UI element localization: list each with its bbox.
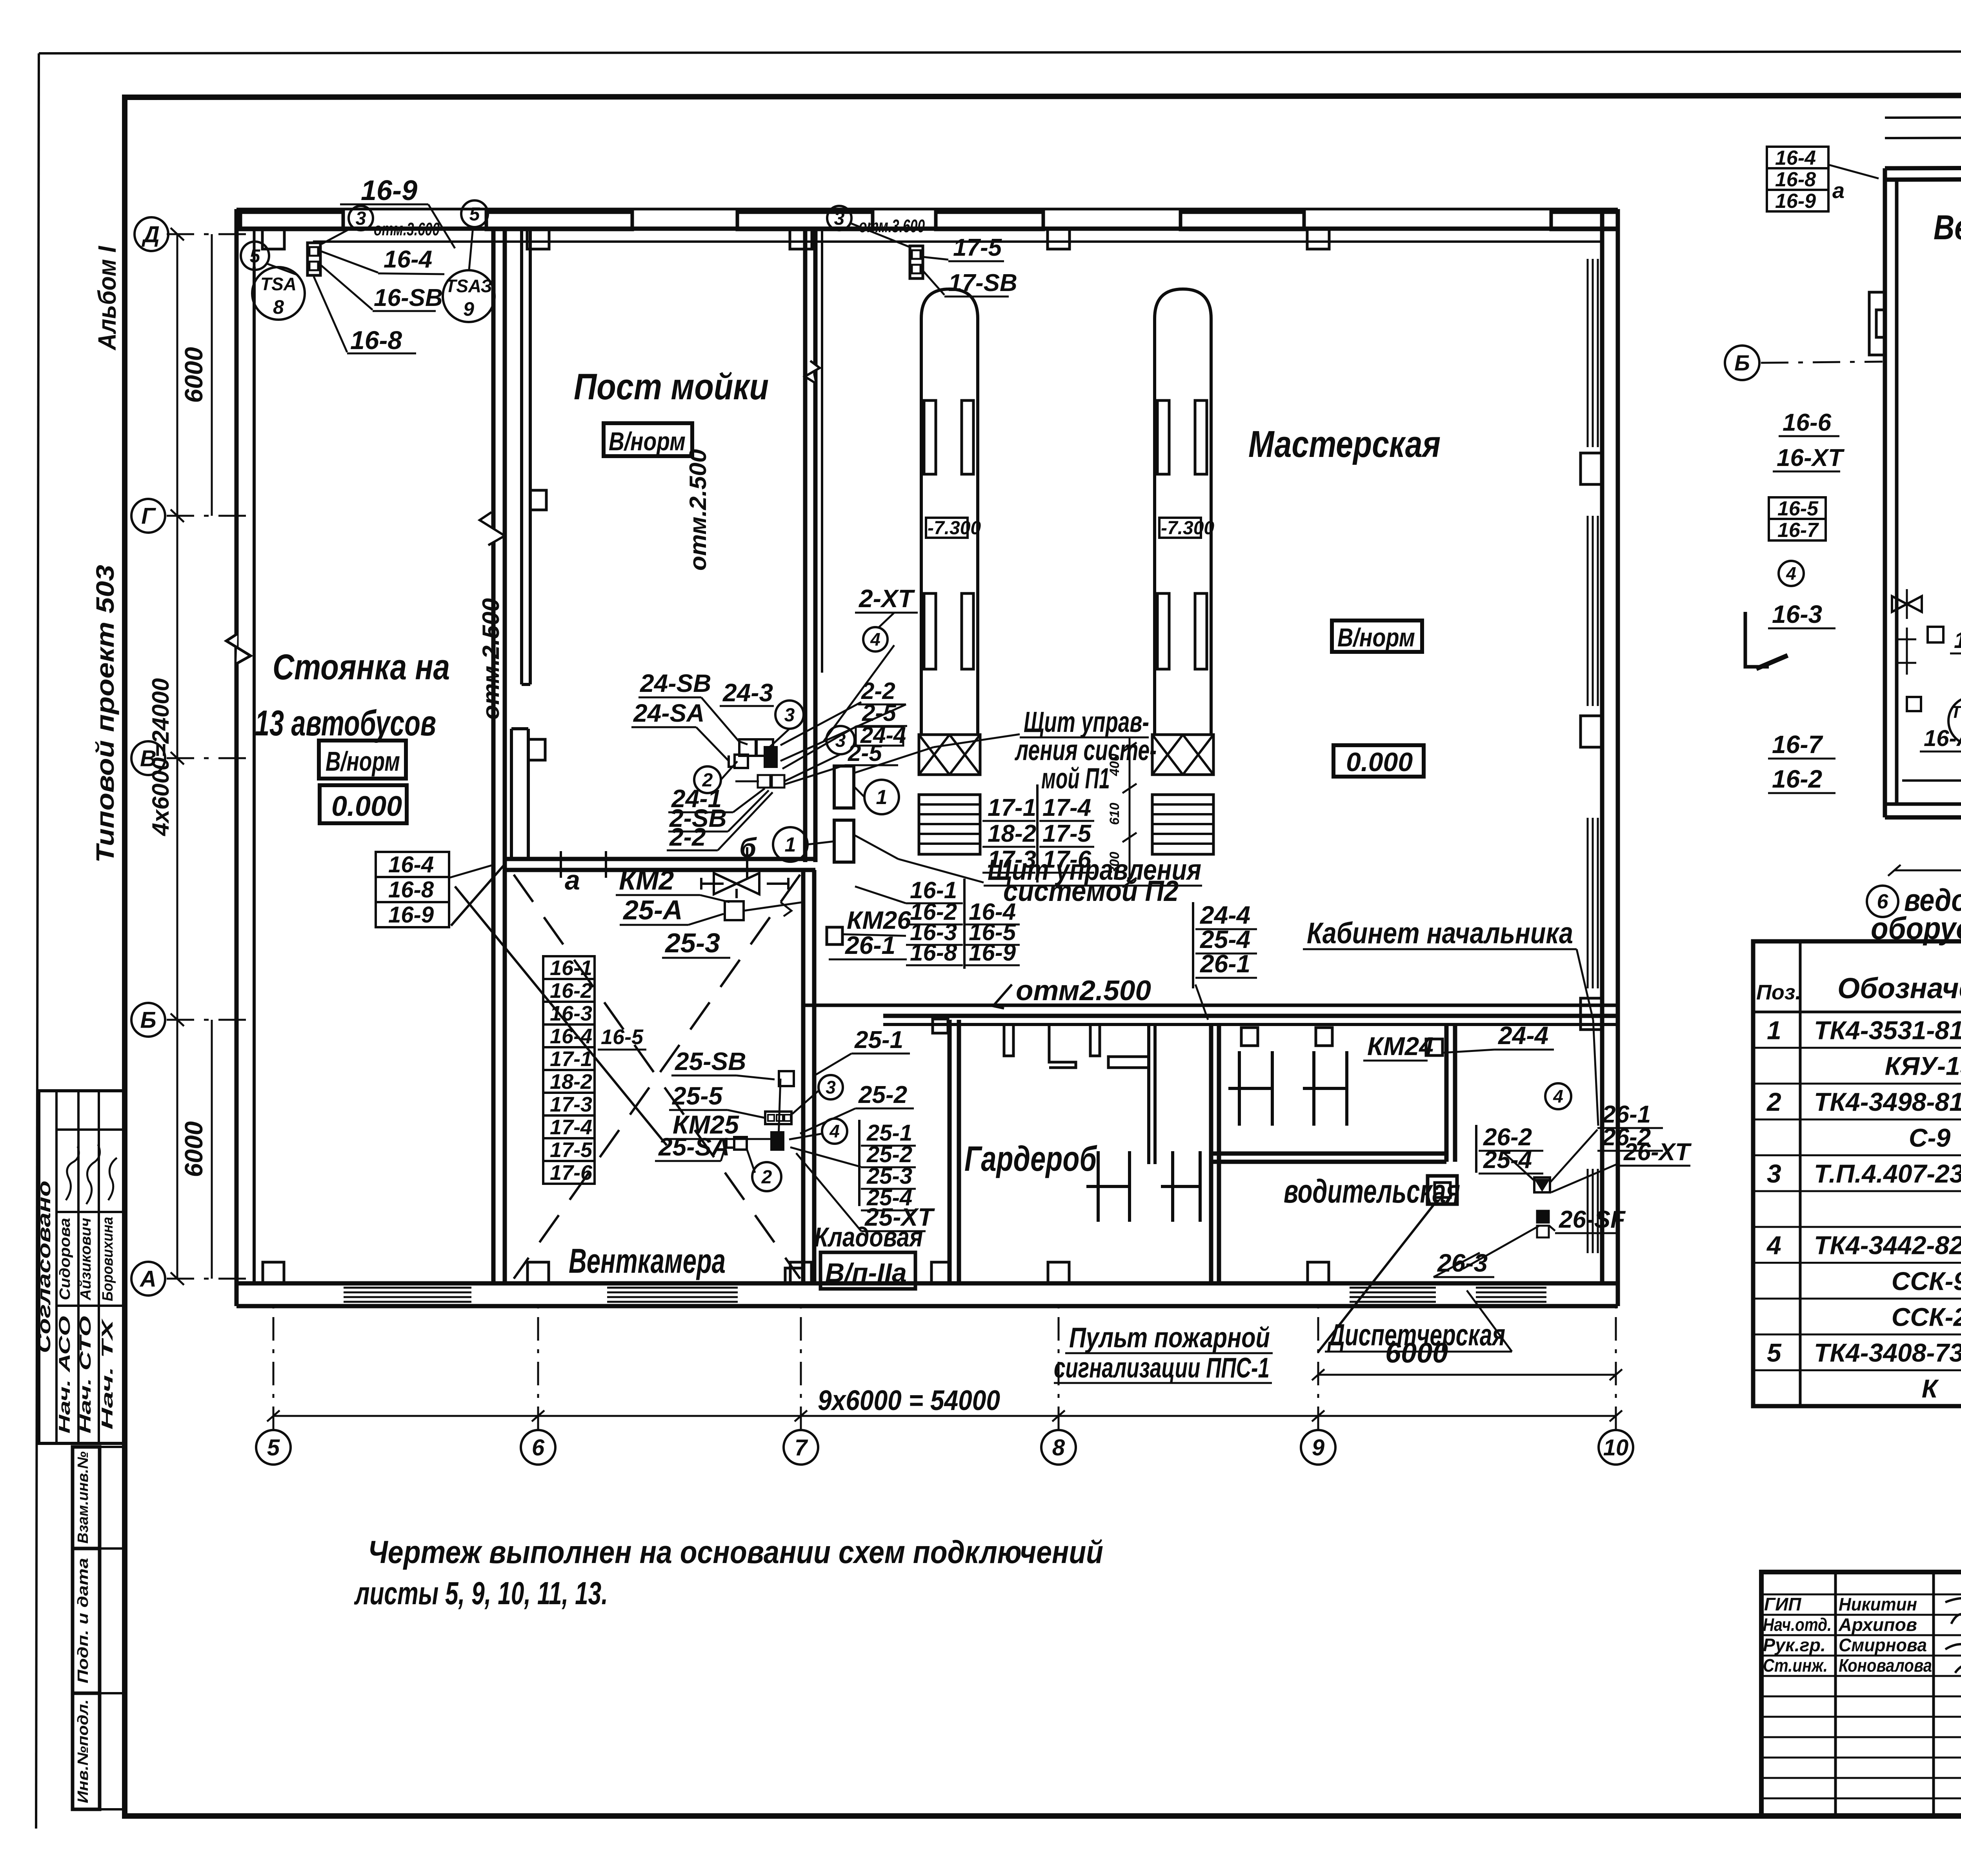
svg-text:а: а [565,865,580,895]
callout circle 3 (км25) [819,1075,843,1099]
svg-text:Коновалова: Коновалова [1839,1655,1932,1676]
svg-text:Подп. и дата: Подп. и дата [75,1558,91,1683]
svg-text:16-8: 16-8 [910,939,957,966]
svg-text:Альбом I: Альбом I [93,246,121,351]
svg-text:5: 5 [469,204,480,225]
svg-text:25-3: 25-3 [664,928,720,958]
svg-text:Обозначение: Обозначение [1837,972,1961,1004]
value box В/норм (мастерская) [1332,620,1422,652]
inspection pit A outline [921,289,978,735]
svg-text:1: 1 [876,786,888,809]
svg-text:25-4: 25-4 [1483,1146,1532,1174]
sidebar row line y3329 [56,1305,125,1307]
svg-text:10: 10 [1603,1435,1629,1460]
callout circle 2 (км25) [752,1162,781,1191]
svg-text:КЯУ-15: КЯУ-15 [1885,1052,1961,1081]
svg-text:16-2: 16-2 [550,979,592,1003]
svg-text:Боровихина: Боровихина [100,1217,116,1301]
svg-text:Сидорова: Сидорова [57,1218,73,1300]
axis В dashdot line [167,757,251,759]
svg-text:16-2: 16-2 [1772,765,1822,793]
svg-text:24-3: 24-3 [722,679,773,707]
svg-text:16-ХТ: 16-ХТ [1777,444,1845,471]
svg-text:16-6: 16-6 [1783,409,1832,436]
svg-text:ТК4-3498-81: ТК4-3498-81 [1814,1087,1961,1116]
inspection pit B inner slots lower [1157,593,1169,669]
Щит панель П1 rect [834,766,854,808]
outer margin line top [39,51,1961,53]
title block vertical 4680 [1834,1572,1837,1816]
sidebar stamp box Инв.№подл. [73,1693,100,1809]
svg-text:2-5: 2-5 [848,740,882,766]
svg-text:25-1: 25-1 [854,1026,903,1054]
svg-text:Д: Д [141,222,160,247]
svg-text:17-6: 17-6 [550,1161,593,1185]
svg-text:Б: Б [140,1007,156,1033]
svg-text:25-А: 25-А [622,895,683,925]
sidebar col line x252 [98,1091,100,1443]
svg-text:16-8: 16-8 [1775,168,1816,191]
svg-text:400: 400 [1107,754,1122,777]
column stub bottom 2042 [790,1262,811,1283]
svg-text:16-4: 16-4 [550,1024,592,1048]
axis 8 dashdot line [1058,1306,1060,1430]
vent TSA1 circle 6 (left) [1948,697,1961,745]
svg-text:16-3: 16-3 [550,1002,592,1025]
svg-text:Смирнова: Смирнова [1839,1635,1927,1655]
svg-text:3: 3 [784,705,795,726]
axis 6 circle [521,1430,555,1465]
svg-text:Нач. АСО: Нач. АСО [56,1316,73,1434]
inspection pit B stairs [1152,795,1213,854]
axis 8 circle [1041,1430,1076,1465]
svg-text:А: А [139,1266,156,1292]
title block left rows [1761,1594,1961,1596]
svg-text:Согласовано: Согласовано [34,1181,54,1353]
svg-text:ТК4-3442-82: ТК4-3442-82 [1814,1231,1961,1260]
parts row 3 [1753,1083,1961,1084]
fire panel symbol [1428,1176,1457,1204]
svg-text:Т.П.4.407-235: Т.П.4.407-235 [1814,1159,1961,1188]
svg-text:16-1: 16-1 [550,956,592,980]
16-9 leader [428,204,455,248]
svg-text:16-4: 16-4 [1775,147,1816,169]
svg-text:Инв.№подл.: Инв.№подл. [75,1699,91,1803]
svg-text:26-ХТ: 26-ХТ [1623,1139,1692,1166]
гардероб inner partition wall [1147,1024,1150,1164]
svg-text:2-ХТ: 2-ХТ [859,584,915,613]
callout circle 3 (top) [349,206,373,230]
svg-text:2: 2 [761,1167,772,1188]
stack 25 leader [790,1147,861,1167]
svg-text:17-SВ: 17-SВ [948,269,1017,297]
canopy slab 613 [240,212,343,229]
svg-text:26-1: 26-1 [845,931,895,959]
венткамера leader diagonal solid 1 [455,886,667,1145]
callout circle 1 (a) [864,780,899,814]
svg-text:5: 5 [1767,1338,1782,1367]
parts row 9 [1753,1297,1961,1299]
callout stack 16-1..17-6 [543,956,595,979]
inspection pit B X-box [1152,735,1213,775]
column stub top 1372 [527,229,549,249]
svg-text:610: 610 [1107,803,1122,825]
svg-text:ССК-2: ССК-2 [1892,1302,1961,1331]
svg-text:Диспетчерская: Диспетчерская [1327,1317,1505,1352]
svg-text:сигнализации ППС-1: сигнализации ППС-1 [1054,1352,1270,1384]
bottom dim tick 697 [267,1410,280,1421]
Щит П1 leader [933,734,1020,747]
svg-text:8: 8 [1052,1435,1065,1460]
title signatures [1945,1597,1961,1629]
inspection pit B inner slots upper [1157,400,1169,474]
svg-text:К: К [1922,1374,1939,1403]
axis Д circle [135,217,168,251]
диспетчерская leader [1467,1290,1512,1352]
bottom dimension line 9x6000 [273,1415,1616,1417]
wall break zigzag on Стоянка wall [480,512,505,545]
axis Б circle [131,1003,165,1037]
svg-text:2-2: 2-2 [669,823,706,851]
axis7 top leaders [851,224,910,247]
svg-text:Пост мойки: Пост мойки [574,366,769,407]
svg-text:24-4: 24-4 [1498,1021,1548,1050]
value box В/норм (пост мойки) [604,423,692,456]
svg-text:8: 8 [273,296,284,318]
right pier 2545 [1581,998,1602,1030]
sidebar row line y2880 [56,1128,125,1131]
КМ26 device [827,927,842,944]
tsa cluster leaders [322,229,350,244]
bottom dim tick 1372 [532,1410,544,1421]
svg-text:300: 300 [1107,852,1122,874]
svg-text:1: 1 [1767,1015,1781,1044]
left dim tick 597 [171,228,184,240]
top exterior wall lower line [236,227,1618,231]
wall венткамера right vertical W3 [801,870,806,1283]
svg-text:16-8: 16-8 [388,877,434,903]
svg-text:17-5: 17-5 [1042,820,1092,847]
svg-text:17-1: 17-1 [550,1047,592,1071]
axis 5 circle [256,1430,291,1465]
svg-text:24-SВ: 24-SВ [640,669,711,697]
sidebar signature 3 [108,1158,117,1200]
right pier 1155 [1581,453,1602,484]
parts table header row line [1753,1011,1961,1014]
svg-text:24-SА: 24-SА [633,699,704,727]
sidebar table approvals outer [39,1091,125,1443]
svg-text:ТК4-3408-73: ТК4-3408-73 [1814,1338,1961,1367]
top wall inner face line [313,240,1602,243]
stack leader down [1195,984,1208,1020]
svg-text:Взам.инв.№: Взам.инв.№ [75,1452,91,1544]
parts row 7 [1753,1226,1961,1228]
гардероб stub hook [1049,1024,1076,1068]
Щит панель П2 rect [834,820,854,862]
wall Стоянка/Пост мойки vertical [491,229,496,1283]
svg-text:Айзикович: Айзикович [78,1218,94,1301]
svg-text:17-1: 17-1 [988,794,1036,821]
svg-text:16-7: 16-7 [1777,519,1819,542]
left exterior wall [235,209,239,1306]
axis Б dashdot line [167,1019,251,1021]
right window 2085 [1587,818,1589,988]
svg-text:В/п-IIа: В/п-IIа [825,1258,907,1288]
svg-text:Гардероб: Гардероб [964,1139,1097,1179]
vent boxed 16-5 16-7 [1769,497,1826,519]
svg-text:16-3: 16-3 [1772,600,1822,628]
svg-text:отм.3.600: отм.3.600 [374,219,440,239]
canopy slab 3010 [1181,212,1304,229]
svg-text:-7.300: -7.300 [1161,518,1214,539]
axis 10 circle [1599,1430,1633,1465]
svg-text:системой П2: системой П2 [1003,875,1179,907]
венткамера leader diagonal solid 2 [451,863,506,926]
svg-text:0.000: 0.000 [331,791,402,822]
svg-text:16-5: 16-5 [601,1025,644,1049]
flow arrow on W4 [805,361,820,383]
inspection pit B outline [1155,289,1211,735]
callout circle 4 (central) [863,627,888,651]
door б jamb [746,847,748,878]
svg-text:6: 6 [532,1435,545,1460]
callout circle 3 (central) [775,701,804,729]
window hatch 3441 [1350,1287,1436,1289]
sidebar stamp box Взам.инв.№ [73,1447,100,1548]
column stub bottom 2699 [1048,1262,1069,1283]
svg-text:Г: Г [141,503,156,529]
svg-text:Мастерская: Мастерская [1248,423,1441,465]
svg-text:25-ХТ: 25-ХТ [864,1203,935,1231]
mezzanine tab lower [528,739,545,760]
wall водительская left vertical W7 [1209,1024,1213,1283]
callout stack 26-2 25-4 (left) [1475,1125,1477,1173]
callout circle 4 (водительская) [1545,1083,1571,1109]
toilet fixtures upper [1228,1051,1272,1126]
svg-text:1: 1 [785,833,796,856]
26 cluster leaders [1502,1151,1534,1181]
wall Кабинет начальника left vertical W9 [1444,1024,1449,1162]
vent bottom device row left [1902,779,1961,782]
КМ2 valve symbol [714,873,737,894]
svg-text:ТSА: ТSА [260,274,297,294]
column stub bottom 2375 [931,1262,950,1283]
sidebar signature 2 [86,1145,100,1204]
inspection pit A inner slots lower [924,593,936,669]
кабинет label leader [1577,949,1593,1020]
inspection pit A inner slots upper [924,400,936,474]
callout circle 4 (км25) [822,1119,847,1144]
sidebar col line x144 [55,1091,58,1443]
column stub bottom 697 [263,1262,284,1283]
КМ2 leaders [700,895,729,902]
vent caption circle 6 [1867,886,1898,917]
callout stack 24-4 25-4 26-1 [1192,902,1194,988]
callout circle 3 (axis7) [827,206,851,230]
svg-text:25-SВ: 25-SВ [675,1047,746,1075]
svg-text:16-9: 16-9 [1775,190,1816,213]
top device near axis7 [910,246,923,278]
vertical dim 400/610/300 [1129,737,1131,883]
гардероб shelf [1108,1057,1149,1068]
inspection pit B label -7.300 [1159,518,1201,538]
callout circle 5 (right top) [461,200,488,227]
value box В/п-IIа [820,1252,915,1289]
svg-text:Нач. ТХ: Нач. ТХ [99,1318,116,1430]
КМ24 device [1426,1039,1443,1055]
svg-text:Архипов: Архипов [1838,1614,1917,1635]
svg-text:3: 3 [1767,1159,1781,1188]
value box 0.000 (мастерская) [1333,745,1424,777]
svg-text:16-9: 16-9 [969,939,1016,966]
svg-text:3: 3 [834,208,845,229]
parts table column lines [1799,941,1802,1406]
svg-text:Венткамера: Венткамера [569,1241,726,1280]
right window 1315 [1587,516,1589,706]
door а jambs [560,851,562,878]
svg-text:Чертеж выполнен на основани: Чертеж выполнен на основании схем подклю… [368,1534,1103,1570]
svg-text:Типовой проект 503: Типовой проект 503 [91,565,119,863]
svg-text:Рук.гр.: Рук.гр. [1763,1635,1826,1655]
axis В circle [131,741,165,775]
minitable 16-1 .. 16-9 [963,879,966,969]
svg-text:ТК4-3531-81: ТК4-3531-81 [1814,1015,1961,1044]
КМ2 device square [725,901,744,920]
axis 9 dashdot line [1317,1306,1319,1430]
value box 0.000 (стоянка) [320,785,407,823]
axis А dashdot line [167,1278,251,1280]
svg-text:отм.2.500: отм.2.500 [685,449,711,571]
central devices on wall [739,739,756,756]
callout circle 3 (right) [826,726,855,754]
svg-text:Никитин: Никитин [1839,1594,1917,1614]
vent dim 6000 [1894,870,1961,872]
svg-text:-7.300: -7.300 [928,518,981,539]
svg-text:6000: 6000 [180,1121,208,1177]
vent detail top wall [1885,167,1961,168]
axis 5 dashdot line [273,1306,275,1430]
toilet fixtures H shapes [1086,1151,1130,1222]
callout circle 1 (b) [773,827,808,862]
svg-text:ТSАЗ: ТSАЗ [445,276,492,296]
column stub top 697 [262,229,284,249]
svg-text:Б: Б [1734,351,1750,375]
vent detail left wall [1883,168,1887,817]
bottom dim tick 2699 [1052,1410,1065,1421]
svg-text:17-4: 17-4 [1042,794,1091,821]
svg-text:26-SF: 26-SF [1559,1206,1626,1233]
svg-text:3: 3 [356,208,366,229]
canopy slab 1240 [486,212,632,229]
wall Гардероб left vertical W5 [948,1020,952,1283]
svg-text:16-8: 16-8 [350,326,402,355]
value box В/норм (стоянка) [319,741,406,779]
right pier 1825 [1581,716,1602,747]
right window 2980 [1587,1169,1589,1253]
left dim tick 3260 [171,1272,184,1285]
dimension line 6000 (9-10) [1318,1374,1616,1376]
svg-text:4х6000=24000: 4х6000=24000 [147,678,174,836]
stack leader to wall corner [449,865,493,878]
vent axis Б dashdot [1761,362,1883,363]
svg-text:Поз.: Поз. [1756,981,1801,1004]
svg-text:В/норм: В/норм [326,746,400,777]
top exterior wall upper line [236,208,1618,211]
column stub top 3361 [1307,229,1329,249]
vent detail bottom wall [1885,802,1961,806]
parts row 4 [1753,1119,1961,1121]
canopy slab 2386 [936,212,1043,229]
column stub top 2042 [790,229,812,249]
svg-text:Нач.отд.: Нач.отд. [1763,1614,1832,1635]
svg-text:Нач. СТО: Нач. СТО [77,1316,94,1434]
svg-text:16-4: 16-4 [388,852,434,877]
svg-text:ССК-9: ССК-9 [1892,1266,1961,1296]
svg-text:ГИП: ГИП [1764,1594,1801,1614]
mezzanine edge line Пост мойки (upper) [520,229,523,684]
tsa cluster device [307,243,320,275]
column stub top 2699 [1048,229,1070,249]
svg-text:17-5: 17-5 [953,234,1002,261]
outer margin line left [36,53,39,1829]
parts row 2 [1753,1047,1961,1049]
svg-text:5: 5 [250,246,261,267]
vent valves left [1892,596,1922,612]
svg-text:4: 4 [870,629,880,650]
svg-text:ТSА1: ТSА1 [1951,702,1961,722]
svg-text:16-4: 16-4 [384,246,432,273]
svg-text:КМ26: КМ26 [847,906,911,934]
svg-text:16-9: 16-9 [388,902,434,928]
водительская devices [1534,1177,1550,1192]
parts row 8 [1753,1262,1961,1264]
svg-text:16-9: 16-9 [361,175,417,206]
window hatch 876 [344,1287,471,1289]
гардероб hanging stubs from ceiling [1004,1024,1013,1056]
sidebar stamp box Подп. и дата [73,1548,100,1693]
vent section mark bottom-left [1745,612,1769,667]
left wall top jog [236,229,254,267]
svg-text:25-5: 25-5 [672,1082,723,1110]
mezzanine tab upper [530,490,546,510]
svg-text:9: 9 [463,298,474,320]
inspection pit A X-box [919,735,980,775]
svg-text:Ст.инж.: Ст.инж. [1763,1655,1828,1676]
svg-text:4: 4 [1553,1086,1563,1106]
parts row 6 [1753,1190,1961,1192]
svg-text:16-7: 16-7 [1772,730,1824,759]
axis 10 dashdot line [1615,1306,1617,1430]
bottom dim tick 4120 [1610,1410,1622,1421]
svg-text:КМ24: КМ24 [1367,1032,1433,1061]
central leader lines [739,741,748,744]
callout circle 2 (central) [694,766,721,793]
svg-text:13 автобусов: 13 автобусов [255,703,436,743]
parts row 5 [1753,1154,1961,1156]
axis 7 circle [784,1430,818,1465]
svg-text:ления систе-: ления систе- [1015,734,1157,766]
vent callout box 16-4 16-8 16-9 (left top) [1767,147,1828,168]
axis Г dashdot line [167,515,251,517]
svg-text:0.000: 0.000 [1346,747,1413,777]
sidebar stamp right col lines [100,1446,125,1448]
left dimension line 6000 segment [211,234,213,516]
svg-text:16-А2: 16-А2 [1954,628,1961,653]
axis 9 circle [1301,1430,1335,1465]
svg-text:3: 3 [826,1077,836,1097]
svg-text:17-5: 17-5 [550,1138,593,1162]
svg-text:Щит управ-: Щит управ- [1024,706,1149,738]
